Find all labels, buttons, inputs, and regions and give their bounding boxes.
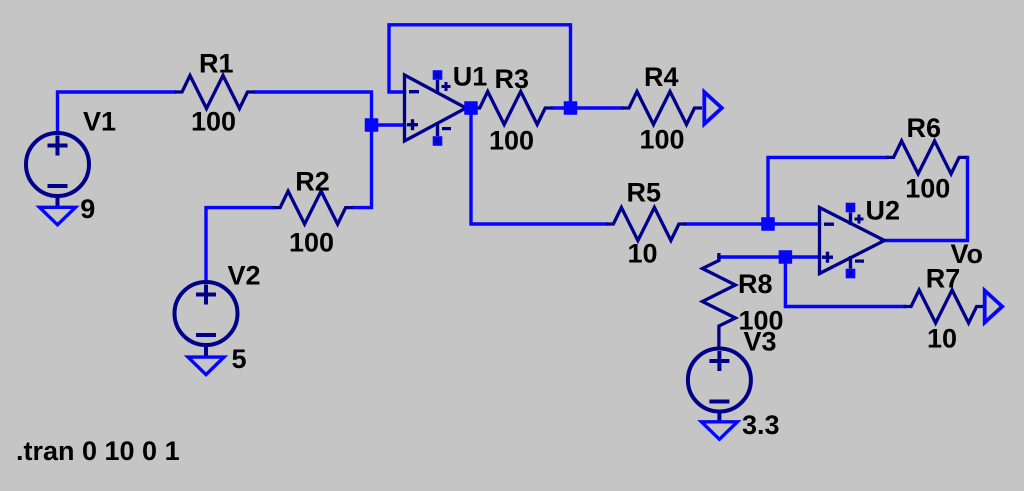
svg-text:R8: R8 — [738, 269, 773, 299]
wire node D down to R7 — [785, 257, 904, 307]
voltage source V1 — [26, 133, 89, 196]
svg-text:R5: R5 — [627, 178, 662, 208]
resistor R4 — [622, 92, 703, 125]
wire R3 to node B — [553, 106, 571, 109]
svg-text:100: 100 — [489, 126, 534, 156]
svg-text:3.3: 3.3 — [742, 410, 780, 440]
wire node A to U1 noninverting input — [372, 123, 405, 126]
output port flag after R4 — [704, 92, 722, 124]
svg-text:100: 100 — [905, 174, 950, 204]
resistor R7 — [904, 290, 985, 323]
wire U1 feedback loop — [389, 25, 571, 108]
wire node C to U2 inverting input — [768, 222, 820, 225]
wire node C up to R6 — [768, 157, 887, 224]
svg-text:Vo: Vo — [951, 239, 984, 269]
resistor R3 — [472, 92, 553, 125]
node C junction (R5/R6/U2 -in) — [761, 217, 775, 231]
resistor R1 — [175, 76, 256, 109]
U1 output junction — [464, 101, 478, 115]
svg-text:U1: U1 — [453, 62, 488, 92]
svg-text:5: 5 — [232, 344, 247, 374]
node A junction (R1/R2 to U1 +in) — [365, 118, 379, 132]
svg-text:10: 10 — [927, 324, 957, 354]
svg-text:100: 100 — [289, 228, 334, 258]
ground — [188, 344, 224, 375]
op-amp U1 — [405, 70, 467, 146]
wire R6 down to U2 output (net Vo) — [882, 157, 968, 240]
wire V1 to R1 — [58, 92, 175, 133]
wire U1 output down to R5 — [471, 108, 606, 224]
svg-text:10: 10 — [628, 239, 658, 269]
resistor R6 — [886, 141, 967, 174]
svg-text:R2: R2 — [295, 167, 330, 197]
wire V2 to R2 — [206, 208, 273, 282]
svg-text:100: 100 — [640, 125, 685, 155]
voltage source V2 — [175, 282, 238, 345]
svg-text:R3: R3 — [495, 64, 530, 94]
svg-text:V1: V1 — [83, 107, 116, 137]
ground — [701, 410, 737, 439]
ground — [40, 195, 76, 225]
wire R8 to node D to U2 noninverting input — [719, 257, 820, 260]
svg-text:V2: V2 — [228, 261, 261, 291]
wire R1 to node A and down to R2 — [255, 92, 372, 208]
svg-text:V3: V3 — [744, 327, 777, 357]
resistor R8 — [702, 253, 735, 348]
svg-text:R6: R6 — [907, 113, 942, 143]
resistor R2 — [273, 191, 354, 224]
node B junction (R3/R4/feedback) — [564, 101, 578, 115]
node D junction (R8/U2 +in/R7) — [779, 250, 793, 264]
op-amp U2 — [820, 203, 885, 279]
wire R5 to node C — [686, 222, 768, 225]
svg-text:.tran 0 10 0 1: .tran 0 10 0 1 — [16, 436, 180, 466]
resistor R5 — [606, 208, 687, 241]
svg-text:R4: R4 — [644, 62, 679, 92]
voltage source V3 — [688, 349, 751, 412]
svg-text:9: 9 — [80, 194, 95, 224]
wire node B to R4 — [571, 106, 622, 109]
svg-text:U2: U2 — [866, 196, 901, 226]
output port flag after R7 — [985, 291, 1003, 323]
svg-text:R1: R1 — [199, 49, 234, 79]
svg-text:100: 100 — [191, 107, 236, 137]
